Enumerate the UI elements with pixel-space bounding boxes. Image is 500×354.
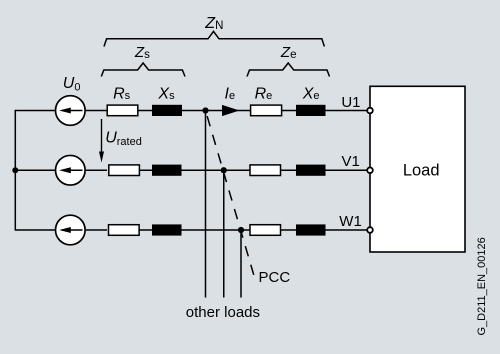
wire other-loads branch 1: [205, 111, 207, 298]
node PCC row3 junction: [238, 227, 244, 233]
arrow in G3: [62, 229, 83, 231]
node PCC row2 junction: [221, 167, 227, 173]
svg-text:PCC: PCC: [259, 269, 291, 286]
wire row1 main: [138, 110, 367, 112]
source G2: [56, 155, 86, 185]
PCC boundary dashed line: [206, 111, 254, 276]
reactor Xs row3: [152, 224, 182, 235]
svg-text:W1: W1: [339, 213, 362, 230]
node PCC row1 junction: [202, 107, 208, 113]
resistor Re row3: [250, 225, 281, 236]
source G3: [56, 215, 86, 245]
wire row2 G2 to Rs: [86, 169, 107, 171]
brace ZN: [104, 31, 324, 46]
reactor Xe row3: [296, 224, 326, 235]
resistor Rs row1: [107, 105, 138, 116]
terminal W1: [367, 227, 373, 233]
brace Ze: [247, 63, 330, 77]
svg-text:other loads: other loads: [186, 304, 260, 321]
resistor Re row2: [250, 165, 281, 176]
arrow Urated: [101, 119, 103, 156]
brace Zs: [101, 63, 185, 77]
terminal V1: [367, 167, 373, 173]
wire row2 left: [15, 169, 55, 171]
reactor Xs row1: [152, 105, 182, 116]
terminal U1: [367, 108, 373, 114]
svg-text:G_D211_EN_00126: G_D211_EN_00126: [476, 237, 488, 335]
node on left bus: [12, 167, 18, 173]
resistor Rs row3: [109, 225, 140, 236]
svg-text:U1: U1: [341, 94, 360, 111]
wire row3 G3 to Rs: [86, 229, 107, 231]
wire other-loads branch 2: [223, 170, 225, 297]
svg-text:Load: Load: [403, 162, 440, 180]
reactor Xs row2: [152, 165, 182, 176]
arrow in G1: [62, 110, 83, 112]
resistor Re row1: [251, 105, 282, 116]
source G1: [56, 96, 86, 126]
load box: [370, 86, 465, 252]
svg-text:V1: V1: [341, 153, 359, 170]
wire row1 G1 to Rs: [86, 110, 107, 112]
wire other-loads branch 3: [240, 230, 242, 298]
wire row3 main: [138, 229, 367, 231]
resistor Rs row2: [109, 165, 140, 176]
left bus wire: [14, 111, 16, 231]
wire row3 left: [15, 229, 55, 231]
current arrow Ie: [222, 105, 240, 116]
reactor Xe row1: [296, 105, 326, 116]
reactor Xe row2: [296, 165, 326, 176]
wire row1 left: [15, 110, 55, 112]
wire row2 main: [138, 169, 367, 171]
arrow in G2: [62, 169, 83, 171]
